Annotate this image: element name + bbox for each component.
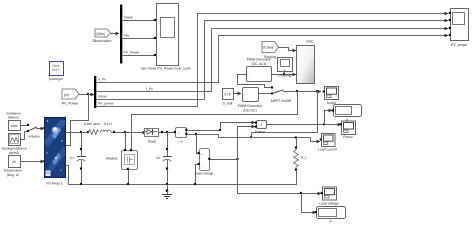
wire to display V: [302, 194, 315, 213]
powergui: [49, 62, 63, 82]
svg-text:PWM Generator: PWM Generator: [247, 58, 272, 62]
wire D_half to PWMGen2: [234, 93, 241, 95]
svg-text:›: ›: [267, 73, 268, 77]
node: [283, 73, 285, 75]
wire to display P: [324, 111, 326, 125]
wire gate run: [132, 115, 298, 151]
wire PV_power to PV_scope in1: [97, 14, 448, 107]
node resistor in: [87, 131, 89, 133]
svg-text:Load voltage: Load voltage: [319, 202, 339, 206]
wire load branch: [188, 135, 319, 142]
wire Vmax to PV_scope in2: [97, 21, 448, 100]
svg-text:Vpv Vmax PV_Power Duty_cycle: Vpv Vmax PV_Power Duty_cycle: [141, 67, 191, 71]
product Product: [255, 121, 267, 134]
from tag Routing: [262, 42, 279, 60]
wire ground rail: [69, 184, 297, 186]
scope Load current: [318, 134, 337, 152]
wire tag to demux2: [80, 94, 94, 96]
svg-text:Mosfet1: Mosfet1: [106, 157, 118, 161]
svg-text:(Deg. C): (Deg. C): [7, 173, 19, 177]
inductor 8.1 mH: [101, 122, 113, 132]
ground: [163, 185, 172, 199]
scope Power: [340, 121, 356, 139]
constant Temperature 25: [4, 156, 23, 177]
block PWM Generator (DC-DC): [238, 88, 263, 113]
wire 1000 to switch: [21, 125, 28, 127]
wire I_Pv to PV_scope in3: [97, 29, 448, 92]
svg-text:Vmax: Vmax: [98, 95, 107, 99]
wire varying to switch: [21, 132, 28, 140]
svg-text:V: V: [329, 220, 332, 224]
wire PV m output riser: [66, 95, 89, 146]
wire LV out to product in2 and displays: [211, 159, 238, 161]
scope Load voltage: [319, 187, 339, 206]
wire V_Pv to PV_scope in4: [97, 36, 448, 83]
wire measurement drop: [317, 92, 319, 133]
node: [80, 183, 82, 185]
wire Chokking down: [284, 71, 286, 75]
svg-text:IrrSelctn: IrrSelctn: [28, 135, 40, 139]
wire PV- riser: [66, 166, 69, 185]
node LV+ tap: [195, 133, 197, 135]
switch IrrSelctn: [27, 124, 40, 139]
svg-text:0.18: 0.18: [224, 92, 230, 96]
capacitor C2: [156, 133, 172, 185]
wire 25 to PV T: [21, 161, 44, 163]
node RL tap: [295, 136, 297, 138]
svg-text:Observation: Observation: [93, 39, 112, 43]
from tag PV_Power: [62, 89, 79, 106]
resistor 0.465 Ohm: [84, 122, 100, 134]
PV array block: [43, 118, 66, 186]
node: [296, 90, 298, 92]
svg-text:(DC-DC)1: (DC-DC)1: [251, 62, 266, 66]
svg-text:›: ›: [248, 73, 249, 77]
node: [316, 90, 318, 92]
node C2 tap: [166, 131, 168, 133]
svg-text:C1: C1: [70, 156, 74, 160]
wire PV+ rail: [66, 132, 89, 134]
wire Vpv: [123, 34, 157, 40]
wire PWMGen1 input from switch feed: [238, 75, 272, 88]
wire duty down: [297, 92, 299, 115]
wire PV_Power: [123, 51, 157, 57]
svg-text:Contin: Contin: [52, 65, 60, 68]
node: [127, 183, 129, 185]
svg-text:R_L: R_L: [301, 156, 307, 160]
wire Vmed: [123, 16, 157, 22]
svg-text:›: ›: [298, 49, 299, 53]
voltage measurement Load Voltage: [195, 135, 214, 185]
capacitor C1: [70, 133, 86, 185]
node: [323, 123, 325, 125]
wire rail to diode: [112, 132, 146, 134]
svg-text:Load current: Load current: [318, 148, 337, 152]
svg-text:Diode: Diode: [148, 140, 157, 144]
wire product out: [267, 124, 338, 126]
wire PWMGen1 to ESC: [272, 74, 296, 76]
wire tag to demux1: [111, 33, 119, 35]
svg-text:1000: 1000: [10, 124, 17, 128]
wire i feedback run: [252, 133, 318, 138]
source VaryingIrradiance: [1, 134, 27, 155]
svg-text:›: ›: [244, 93, 245, 97]
block Chokking: [278, 58, 293, 78]
constant D_half: [223, 89, 234, 106]
from tag Observation: [93, 29, 112, 43]
svg-text:MPPT On/Off: MPPT On/Off: [271, 99, 291, 103]
scope PV_scope: [449, 9, 469, 48]
subsystem ESC: [297, 40, 315, 84]
wire current signal to product in1: [188, 123, 252, 131]
svg-text:ESC: ESC: [307, 40, 315, 44]
svg-text:(DC-DC): (DC-DC): [243, 109, 256, 113]
svg-text:PWM Generator: PWM Generator: [238, 104, 263, 108]
wire to Load voltage scope: [238, 193, 321, 195]
svg-text:Vpv: Vpv: [124, 34, 130, 38]
scope Vpv Vmax PV_Power Duty_cycle: [141, 4, 191, 71]
scope Scope: [323, 87, 339, 106]
svg-text:25: 25: [12, 160, 16, 164]
svg-text:PV Array 1: PV Array 1: [46, 182, 62, 186]
svg-text:PV_Power: PV_Power: [62, 102, 79, 106]
svg-text:Power: Power: [343, 135, 353, 139]
wire switch output to Scope: [284, 91, 321, 93]
svg-text:ideal S.: ideal S.: [52, 69, 60, 72]
display P: [332, 105, 362, 123]
diode Diode: [145, 129, 159, 144]
display V: [315, 207, 346, 224]
demux Demux1: [120, 5, 122, 64]
svg-text:PV_power: PV_power: [98, 102, 115, 106]
resistor R_L: [294, 138, 308, 185]
svg-text:V_Pv: V_Pv: [98, 78, 106, 82]
wire mosfet source to rail: [128, 171, 130, 185]
svg-text:Vmed: Vmed: [124, 16, 133, 20]
node: [219, 129, 221, 131]
wire Routing to ESC: [279, 48, 294, 51]
wire switch to PV Ir: [37, 128, 44, 130]
svg-text:×: ×: [260, 123, 262, 127]
svg-text:I_Pv: I_Pv: [146, 87, 153, 91]
wire diode out: [159, 132, 175, 134]
svg-text:I_m: I_m: [178, 140, 184, 144]
node: [250, 136, 252, 138]
node: [166, 183, 168, 185]
svg-text:C2: C2: [156, 156, 160, 160]
svg-text:8.1 H: 8.1 H: [104, 122, 112, 126]
node C1 tap: [80, 131, 82, 133]
wire PWMGen2 to switch: [259, 93, 272, 95]
node m-junction: [87, 93, 89, 95]
svg-text:(W/m2): (W/m2): [9, 151, 20, 155]
node: [113, 131, 115, 133]
svg-text:[Chan]: [Chan]: [264, 46, 274, 50]
svg-text:PV_scope: PV_scope: [451, 43, 467, 47]
svg-text:[Obs]: [Obs]: [97, 32, 105, 36]
svg-text:(W/m2): (W/m2): [8, 116, 19, 120]
mosfet Mosfet1: [106, 149, 137, 170]
node mosfet drain tap: [124, 131, 126, 133]
svg-text:[m]: [m]: [64, 93, 69, 97]
node: [161, 131, 163, 133]
node: [300, 192, 302, 194]
svg-text:›: ›: [298, 73, 299, 77]
svg-text:0.465 Ohm: 0.465 Ohm: [84, 122, 100, 126]
svg-text:D_half: D_half: [223, 102, 233, 106]
node: [194, 183, 196, 185]
block PWM Generator (DC-DC)1: [247, 58, 273, 82]
svg-text:+: +: [201, 153, 203, 157]
switch MPPT On/Off: [271, 86, 291, 103]
wire mosfet drain: [125, 133, 127, 151]
svg-text:Load Voltage: Load Voltage: [195, 172, 214, 176]
constant Irradiance 1000: [6, 112, 21, 131]
svg-text:PV_Power: PV_Power: [124, 51, 141, 55]
current measurement I_m: [174, 128, 188, 144]
svg-text:Product: Product: [255, 130, 266, 134]
svg-text:-: -: [201, 164, 202, 168]
svg-text:powergui: powergui: [49, 77, 63, 81]
demux Demux2: [94, 76, 96, 108]
